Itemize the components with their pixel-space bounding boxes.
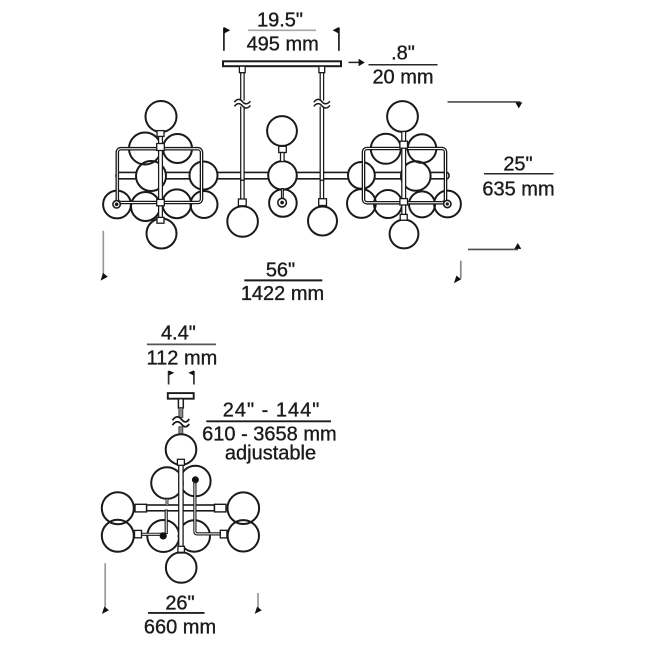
left cluster bottom globe <box>147 219 177 249</box>
right far globe end-on ring <box>444 200 451 207</box>
bar right nub <box>215 504 227 512</box>
arm C nub <box>135 530 142 537</box>
dim 56in right arrowhead <box>454 276 461 284</box>
left cluster nub top <box>157 131 164 137</box>
rod B: left dot up to bar <box>165 510 168 535</box>
dim 56in left arrowhead <box>101 273 108 281</box>
bottom-view mid far-right globe <box>228 492 260 524</box>
left cluster nub bottom <box>157 217 164 223</box>
dim 4.4in right tick <box>193 371 195 385</box>
bottom-view row4 far-right globe <box>228 520 259 551</box>
dim 25in top arrowhead <box>515 102 522 108</box>
break squiggle stem <box>173 417 190 427</box>
left rod <box>241 73 244 181</box>
bottom-view row4 far-left globe <box>102 520 134 552</box>
right cluster upper-left globe <box>371 134 401 164</box>
left pendant globe <box>227 206 258 237</box>
left far globe end-on ring <box>113 201 120 208</box>
bottom-view mid far-left globe <box>102 492 134 524</box>
svg-text:24" - 144": 24" - 144" <box>223 400 321 422</box>
center top globe <box>267 116 297 146</box>
stem top nub <box>177 459 184 465</box>
dim 4.4in fraction line <box>147 343 216 345</box>
dim 19.5in left tick flag <box>224 27 230 34</box>
svg-text:.8": .8" <box>391 43 415 65</box>
dim 56in left witness line <box>102 231 104 277</box>
right cluster low-left globe <box>347 189 376 218</box>
rod A: right dot down elbow right <box>195 483 221 534</box>
right cluster bottom globe <box>390 220 419 249</box>
right cluster low-right globe <box>409 191 435 217</box>
svg-text:20 mm: 20 mm <box>372 67 433 89</box>
dim 56in fraction line <box>244 279 322 281</box>
dim 26in left witness line <box>104 563 106 610</box>
upper stem (gray) <box>179 408 183 418</box>
right rod <box>320 73 323 181</box>
dim 26in left arrowhead <box>102 607 109 614</box>
right cluster nub upper <box>400 141 408 148</box>
dim 24-144in fraction line <box>206 420 331 422</box>
left cluster nub upper <box>157 144 165 151</box>
canopy bar <box>223 61 341 66</box>
svg-text:112 mm: 112 mm <box>147 348 218 370</box>
short stem row2-left globe to bar <box>166 499 169 506</box>
left rod lower segment <box>241 180 244 199</box>
right rod lower segment <box>320 180 323 199</box>
dim 25in fraction line <box>484 173 554 175</box>
dim 19.5in right tick <box>338 28 340 51</box>
right far end-on dot <box>446 202 449 205</box>
right cluster stem <box>402 132 406 221</box>
svg-text:56": 56" <box>266 260 295 282</box>
dim 25in top leader line <box>448 101 521 103</box>
globe strokes <box>103 101 461 249</box>
right cluster far-right end-on globe <box>434 191 461 218</box>
globe fills <box>103 101 461 249</box>
svg-text:4.4": 4.4" <box>161 323 196 345</box>
left cluster low-left globe <box>131 192 160 221</box>
dim 25in bottom leader line <box>468 248 518 250</box>
right pendant nub <box>319 199 327 206</box>
dim 25in bottom arrowhead <box>514 243 521 249</box>
left rod sleeve <box>239 66 245 73</box>
canopy <box>168 393 194 399</box>
svg-text:1422 mm: 1422 mm <box>241 283 324 305</box>
dim 19.5in left tick <box>223 28 225 51</box>
break squiggle right rod <box>314 99 330 108</box>
left cluster upper-left globe <box>129 133 161 165</box>
right cluster top globe <box>387 101 418 132</box>
dim 56in right witness line <box>460 261 462 279</box>
dim 26in right witness line <box>257 593 259 611</box>
dim 4.4in left tick <box>168 371 170 385</box>
left cluster far-left end-on globe <box>103 191 131 219</box>
right cluster nub bottom <box>400 214 407 220</box>
center lower end-on globe <box>269 189 297 217</box>
left cluster mid-left globe <box>136 161 166 191</box>
svg-text:19.5": 19.5" <box>257 10 303 32</box>
end-on dot left (row4) <box>160 532 167 539</box>
left pendant nub <box>238 199 246 206</box>
horizontal bar <box>147 505 215 511</box>
right pendant globe <box>308 207 337 236</box>
dim 26in right arrowhead <box>255 607 262 614</box>
svg-text:26": 26" <box>165 593 194 615</box>
center hub globe <box>268 161 297 190</box>
dim 0.8in fraction line <box>369 64 438 66</box>
globe strokes <box>102 434 259 583</box>
left cluster low-mid globe <box>162 189 191 218</box>
hub below rod <box>281 188 284 202</box>
bottom-view row4 left dotted globe <box>147 520 179 552</box>
left cluster upper-right globe <box>163 134 192 163</box>
left cluster mid-right globe <box>190 162 218 190</box>
dim 4.4in left tick flag <box>169 370 175 375</box>
bottom-view row2-right dotted globe <box>180 466 211 497</box>
left cluster frame <box>117 149 201 203</box>
dim 19.5in right tick flag <box>333 27 339 34</box>
main horizontal bar <box>116 172 449 178</box>
left cluster stem <box>159 131 163 218</box>
dim 4.4in right tick flag <box>188 370 194 375</box>
rod A nub <box>220 530 227 538</box>
bottom-view row4 right globe <box>179 520 210 551</box>
left cluster low-right globe <box>191 191 218 218</box>
dim 0.8in arrowhead <box>359 59 365 67</box>
right cluster nub lower <box>400 199 408 205</box>
dim 0.8in arrow shaft <box>349 61 360 63</box>
right cluster center globe <box>401 161 431 191</box>
svg-text:25": 25" <box>503 154 532 176</box>
right cluster frame <box>364 149 446 203</box>
central stem <box>179 461 183 553</box>
right cluster upper-right globe <box>408 134 437 163</box>
bottom-view top globe <box>166 434 197 465</box>
right cluster mid-left globe <box>348 162 375 189</box>
svg-text:495 mm: 495 mm <box>247 34 319 56</box>
right rod sleeve <box>319 66 325 73</box>
svg-text:660 mm: 660 mm <box>144 617 216 639</box>
stem bottom nub <box>178 546 185 552</box>
arm C: far-left row4 globe to left dot globe <box>135 533 163 536</box>
globe fills <box>102 434 259 583</box>
bottom-view row2-left globe <box>151 467 183 499</box>
left cluster top globe <box>146 101 177 132</box>
bar left nub <box>135 504 147 512</box>
lower stem above top globe (gray) <box>179 427 183 435</box>
dim 19.5in fraction line <box>248 29 316 31</box>
hub end-on ring <box>278 198 287 207</box>
stem collar <box>178 399 183 408</box>
bottom-view bottom globe <box>166 552 197 583</box>
end-on dot right (row2) <box>192 476 199 483</box>
hub top stem <box>281 153 285 162</box>
left far end-on dot <box>115 203 119 207</box>
svg-text:635 mm: 635 mm <box>482 179 554 201</box>
break squiggle left rod <box>234 99 250 108</box>
svg-text:adjustable: adjustable <box>225 443 316 465</box>
left cluster nub lower <box>157 199 165 205</box>
hub top nub <box>279 146 287 152</box>
dim 26in fraction line <box>148 612 205 614</box>
right cluster low-mid globe <box>374 190 402 218</box>
hub end-on dot <box>280 201 284 205</box>
